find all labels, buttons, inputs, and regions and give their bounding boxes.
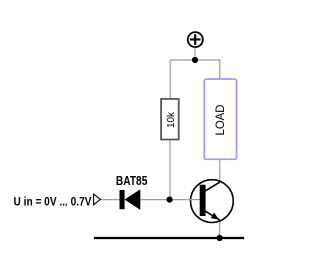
svg-text:LOAD: LOAD	[213, 104, 227, 135]
wire resistor bottom to base node	[169, 139, 171, 199]
node junction ground	[217, 235, 223, 241]
base wire inside circle	[190, 199, 201, 201]
wire load bottom to collector	[219, 159, 221, 182]
svg-text:10k: 10k	[165, 111, 177, 128]
wire supply drop	[194, 48, 196, 61]
base bar	[200, 185, 206, 216]
node junction top	[192, 57, 198, 63]
svg-text:U in = 0V ... 0.7V: U in = 0V ... 0.7V	[14, 195, 92, 209]
load box	[204, 79, 236, 159]
svg-text:BAT85: BAT85	[116, 174, 148, 188]
supply plus terminal	[188, 32, 203, 47]
wire input to diode	[100, 199, 119, 201]
node junction base	[167, 197, 173, 203]
emitter line	[205, 211, 219, 220]
wire to load top	[219, 59, 221, 79]
wire to resistor top	[169, 59, 171, 99]
resistor R 10k	[161, 99, 179, 140]
ground rail	[94, 237, 244, 239]
input port triangle	[94, 194, 101, 205]
wire diode to transistor base	[140, 199, 200, 201]
collector line	[205, 182, 219, 191]
transistor Q1	[190, 180, 233, 223]
diode D1 BAT85	[120, 189, 141, 210]
emitter arrow	[211, 213, 220, 220]
wire emitter to ground	[219, 220, 221, 238]
wire top horizontal	[170, 59, 220, 61]
